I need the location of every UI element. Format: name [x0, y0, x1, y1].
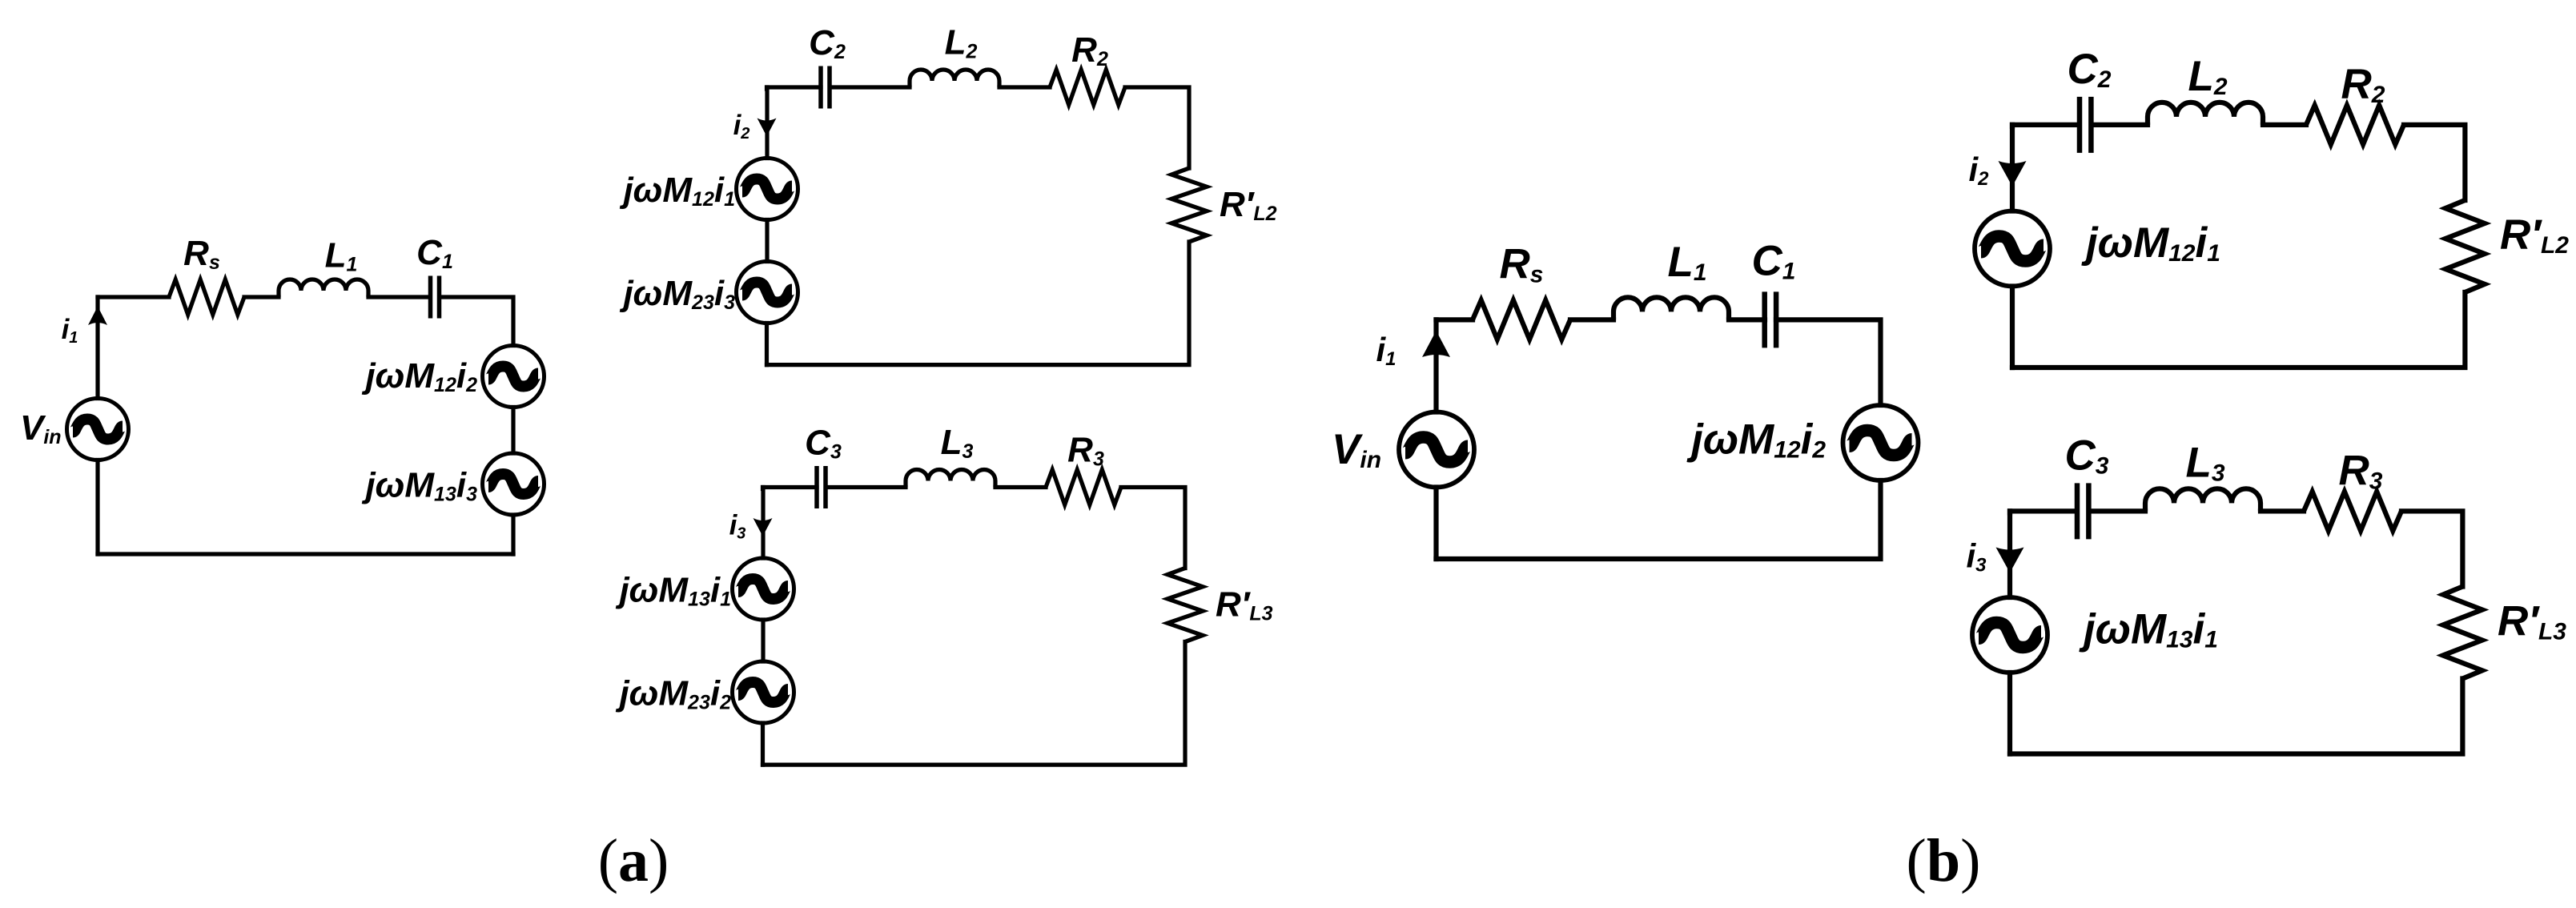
arrow i3 — [754, 518, 773, 536]
arrow i1 — [88, 307, 107, 326]
capacitor C1 — [431, 276, 440, 319]
wire C2 to L2 — [830, 85, 910, 89]
svg-text:(a): (a) — [598, 827, 669, 894]
wire L3 to R3 — [995, 485, 1046, 489]
wire R-L3 to bottom corner — [763, 642, 1186, 765]
source jwM13i1 (b) — [1972, 597, 2048, 673]
wire loop1a top — [98, 295, 169, 299]
inductor L3 — [906, 470, 995, 488]
wire source to corner (b2) — [2010, 125, 2015, 211]
svg-text:jωM12i2: jωM12i2 — [361, 356, 477, 396]
inductor L1 (b) — [1614, 297, 1729, 319]
inductor L2 (b) — [2148, 102, 2263, 125]
arrow i2 (b) — [1999, 161, 2027, 187]
arrow i1 (b) — [1422, 331, 1450, 357]
wire R2 to right corner (b) — [2404, 125, 2465, 200]
wire Rs to L1 (b) — [1570, 317, 1614, 322]
resistor R3 (b) — [2304, 492, 2401, 531]
wire source up to corner loop3a — [761, 488, 765, 559]
wire C3 to L3 (b) — [2089, 508, 2145, 513]
wire bottom to Vin — [95, 460, 99, 555]
wire source to bottom corner (b) — [1437, 480, 1881, 559]
svg-text:jωM12i1: jωM12i1 — [619, 171, 735, 211]
capacitor C2 (b) — [2080, 97, 2091, 153]
wire loop2b top-left — [2012, 125, 2077, 127]
wire loop2a top-left — [767, 87, 822, 89]
wire Rs to L1 — [244, 295, 279, 299]
svg-text:jωM13i1: jωM13i1 — [2079, 606, 2218, 653]
wire bottom-left up to source (b3) — [2007, 673, 2012, 754]
wire C2 to L2 (b) — [2092, 123, 2148, 127]
wire R2 to right corner down — [1125, 87, 1189, 168]
wire bottom-left up to source — [765, 323, 769, 365]
svg-text:jωM12i2: jωM12i2 — [1686, 416, 1826, 464]
source jwM13i1 — [733, 558, 794, 620]
wire bottom-left up to source loop3a — [761, 723, 765, 765]
source jwM23i2 — [733, 661, 794, 723]
svg-text:jωM23i2: jωM23i2 — [615, 674, 731, 714]
wire L2 to R2 (b) — [2263, 123, 2306, 127]
wire loop3a top-left — [763, 488, 818, 489]
capacitor C3 — [817, 466, 826, 508]
inductor L2 — [910, 70, 999, 87]
wire Vin to top corner (b) — [1433, 319, 1438, 412]
wire loop1b top-left — [1437, 317, 1473, 322]
wire loop3b top-left — [2010, 511, 2075, 512]
wire L1 to C1 (b) — [1729, 317, 1765, 322]
source jwM12i1 (b) — [1975, 211, 2050, 287]
wire source to corner (b3) — [2007, 511, 2012, 597]
wire L3 to R3 (b) — [2261, 508, 2304, 513]
svg-text:(b): (b) — [1907, 827, 1981, 894]
arrow i2 — [758, 119, 777, 137]
wire R-L3 to bottom (b3) — [2010, 679, 2462, 754]
wire between sources loop2a — [765, 220, 769, 262]
source jwM23i3 — [737, 262, 798, 323]
wire Vin to top corner — [95, 297, 99, 399]
wire C1 to right corner (b) — [1776, 319, 1881, 405]
svg-text:jωM13i1: jωM13i1 — [615, 571, 731, 611]
wire C3 to L3 — [826, 485, 906, 489]
wire C1 to corner, down to source — [440, 297, 513, 346]
wire R3 to right corner (b3) — [2401, 511, 2462, 586]
bottom wire loop1a — [98, 552, 513, 556]
source Vin — [67, 399, 129, 460]
wire L2 to R2 — [999, 85, 1050, 89]
capacitor C2 — [821, 66, 830, 109]
resistor R2 — [1050, 70, 1125, 105]
resistor R'L2 — [1171, 168, 1207, 242]
svg-text:jωM23i3: jωM23i3 — [619, 274, 735, 314]
wire source up to corner loop2a — [765, 87, 769, 159]
source jwM12i2 — [483, 346, 545, 408]
wire R3 to right corner down — [1121, 488, 1185, 569]
wire R-L2 to bottom (b) — [2012, 292, 2465, 368]
resistor R3 — [1046, 470, 1121, 505]
capacitor C3 (b) — [2077, 483, 2088, 539]
wire R-L2 to bottom corner — [767, 242, 1190, 365]
wire L1 to C1 — [368, 295, 430, 299]
svg-text:jωM12i1: jωM12i1 — [2081, 219, 2220, 267]
source jwM12i2 (b) — [1843, 405, 1919, 480]
wire between sources loop3a — [761, 620, 765, 661]
wire bottom to Vin (b) — [1433, 488, 1438, 560]
wire between sources — [511, 408, 515, 454]
resistor Rs — [169, 279, 244, 315]
wire source to bottom corner — [511, 515, 515, 554]
svg-text:jωM13i3: jωM13i3 — [361, 466, 477, 506]
arrow i3 (b) — [1996, 548, 2024, 573]
inductor L1 — [279, 279, 368, 297]
resistor R'L2 (b) — [2445, 200, 2485, 292]
resistor Rs (b) — [1473, 300, 1570, 339]
capacitor C1 (b) — [1765, 291, 1776, 348]
inductor L3 (b) — [2145, 488, 2261, 511]
source Vin (b) — [1399, 412, 1474, 488]
resistor R'L3 — [1167, 569, 1203, 642]
source jwM13i3 — [483, 453, 545, 515]
wire bottom-left up to source (b2) — [2010, 287, 2015, 368]
source jwM12i1 — [737, 159, 798, 220]
resistor R'L3 (b) — [2443, 587, 2482, 679]
resistor R2 (b) — [2306, 105, 2404, 144]
